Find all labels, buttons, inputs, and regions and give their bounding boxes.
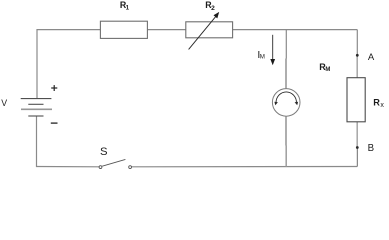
svg-text:R: R <box>373 98 380 108</box>
wire Rx top lead node A to box <box>356 55 358 77</box>
wire meter top lead <box>285 59 287 90</box>
node B <box>356 146 359 149</box>
switch S lever <box>102 159 125 166</box>
wire meter branch from top wire down <box>285 30 287 59</box>
battery V plate 2 short <box>28 103 43 105</box>
battery V plate 1 long <box>21 98 52 100</box>
label - <box>51 122 58 124</box>
wire right vertical node B to bottom corner <box>356 148 358 167</box>
meter needle arc with double arrowheads <box>276 92 297 103</box>
wire meter branch to bottom wire <box>285 146 287 167</box>
variable resistor R2 <box>186 22 233 38</box>
wire meter bottom lead <box>285 116 287 146</box>
wire bottom from left corner to switch <box>37 166 99 168</box>
node A <box>356 54 359 57</box>
wire top from R1 to R2 <box>147 29 185 31</box>
svg-text:M: M <box>260 54 265 61</box>
wire bottom from switch to right corner <box>132 166 358 168</box>
switch S right contact <box>129 166 132 169</box>
wire top from left corner to R1 <box>37 29 100 31</box>
wire right vertical from top corner to node A <box>356 30 358 56</box>
svg-text:B: B <box>368 143 374 154</box>
battery V plate 3 long <box>21 108 52 110</box>
svg-text:V: V <box>1 98 7 108</box>
switch S left contact <box>99 166 102 169</box>
svg-text:2: 2 <box>211 5 215 12</box>
svg-text:A: A <box>368 52 375 63</box>
meter U1 galvanometer circle <box>272 89 300 117</box>
resistor R1 <box>100 21 147 38</box>
svg-text:x: x <box>380 102 384 109</box>
svg-text:1: 1 <box>126 5 130 12</box>
wire top from R2 to right corner <box>233 29 358 31</box>
wire left vertical from top corner to battery <box>36 29 38 99</box>
wire left vertical from battery to bottom corner <box>36 117 39 167</box>
wire Rx bottom lead box to node B <box>356 122 358 148</box>
label + <box>51 87 57 89</box>
svg-text:M: M <box>325 67 330 73</box>
R2 wiper arrow <box>189 16 216 49</box>
current arrow IM <box>272 35 274 61</box>
resistor Rx <box>347 78 365 122</box>
battery V plate 4 short <box>28 115 43 117</box>
svg-text:S: S <box>100 146 108 158</box>
